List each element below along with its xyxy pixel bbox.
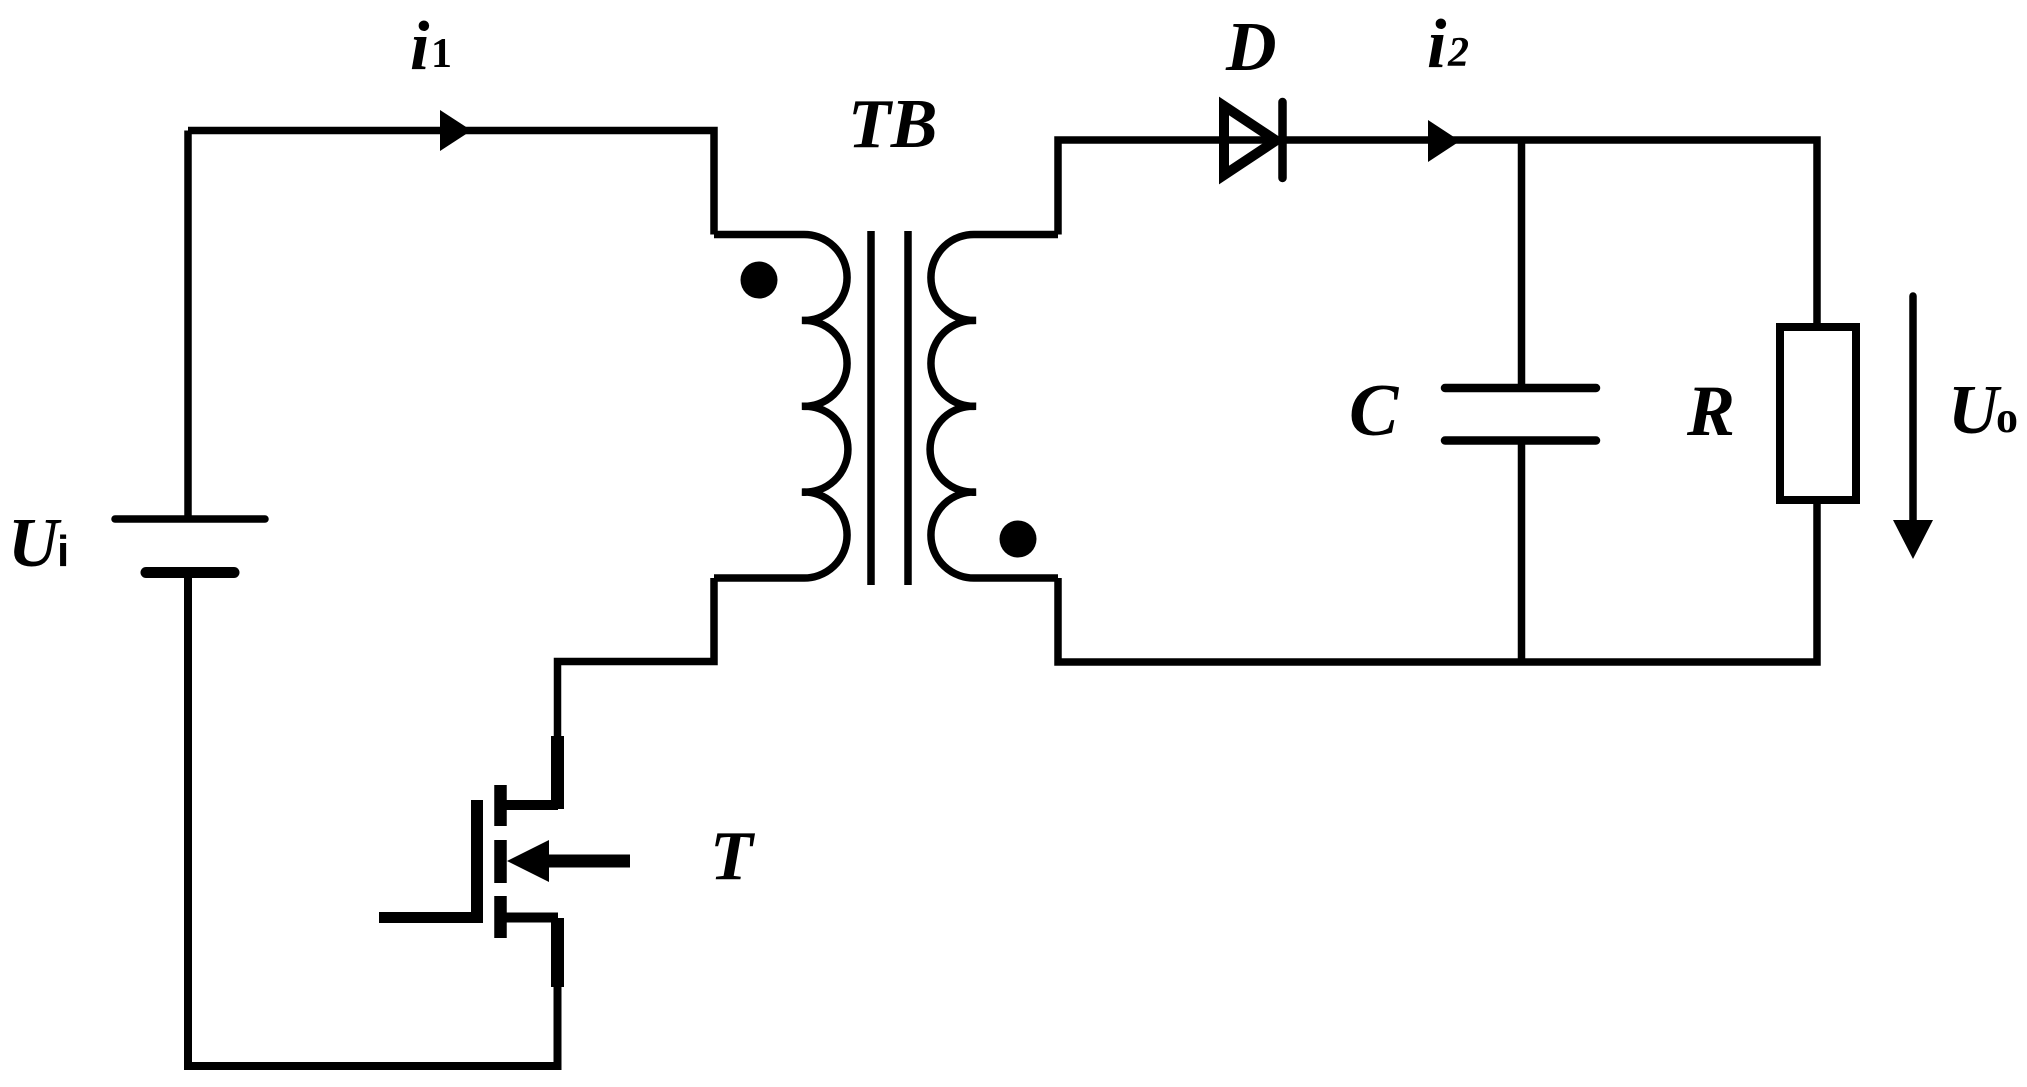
transistor T channel segment body bbox=[494, 840, 507, 883]
label D bbox=[1225, 9, 1277, 86]
svg-text:TB: TB bbox=[848, 86, 937, 163]
transistor T channel segment source bbox=[494, 896, 507, 938]
wire: secondary top, through diode, to resistor top bbox=[1058, 140, 1817, 327]
label R bbox=[1686, 371, 1735, 451]
svg-text:i: i bbox=[57, 527, 69, 576]
transformer core bbox=[871, 231, 908, 585]
wire: battery negative down, along bottom, up to MOSFET source bbox=[188, 573, 558, 1067]
wire: node to capacitor top plate bbox=[1518, 140, 1526, 388]
transistor T MOSFET gate bar bbox=[471, 800, 483, 923]
svg-text:1: 1 bbox=[431, 31, 452, 77]
diode D cathode bar bbox=[1278, 102, 1287, 178]
transistor T drain lead bbox=[500, 800, 558, 810]
capacitor C bottom plate bbox=[1445, 436, 1596, 445]
diode D triangle bbox=[1224, 106, 1276, 175]
wire: capacitor bottom plate to bottom rail bbox=[1518, 441, 1526, 663]
wire: secondary bottom, along bottom rail, up to resistor bottom bbox=[1058, 500, 1817, 662]
transistor T source stub bbox=[551, 918, 564, 987]
transistor T gate lead bbox=[379, 912, 477, 923]
svg-text:D: D bbox=[1225, 9, 1277, 86]
capacitor C top plate bbox=[1445, 384, 1596, 393]
current arrow i2 bbox=[1428, 120, 1460, 162]
svg-text:U: U bbox=[1948, 372, 2002, 449]
resistor R body bbox=[1780, 327, 1856, 500]
battery Ui short plate bbox=[146, 567, 234, 578]
current arrow i1 bbox=[440, 110, 472, 151]
svg-text:o: o bbox=[1996, 393, 2018, 442]
label TB bbox=[848, 86, 937, 163]
transformer TB primary winding bbox=[714, 234, 848, 578]
label i1 bbox=[410, 8, 452, 85]
output voltage arrow Uo bbox=[1909, 296, 1917, 520]
transformer TB secondary winding bbox=[930, 234, 1058, 578]
primary polarity dot bbox=[741, 262, 778, 299]
label i2 bbox=[1427, 6, 1469, 83]
svg-text:T: T bbox=[710, 818, 756, 895]
svg-text:2: 2 bbox=[1447, 30, 1469, 76]
transistor T drain stub bbox=[551, 736, 564, 809]
svg-text:R: R bbox=[1686, 371, 1735, 451]
svg-text:i: i bbox=[410, 8, 430, 85]
battery Ui long plate bbox=[115, 515, 265, 523]
label T bbox=[710, 818, 756, 895]
label Ui bbox=[8, 505, 69, 582]
label Uo bbox=[1948, 372, 2018, 449]
wire: battery positive to top-left corner and down to transformer primary top bbox=[188, 131, 714, 516]
svg-text:i: i bbox=[1427, 6, 1447, 83]
transistor T source lead bbox=[500, 913, 558, 923]
svg-text:U: U bbox=[8, 505, 62, 582]
label C bbox=[1349, 370, 1400, 452]
wire: transformer primary bottom to MOSFET drain bbox=[558, 578, 715, 736]
transistor T body arrow bbox=[507, 840, 549, 882]
svg-text:C: C bbox=[1349, 370, 1400, 452]
transistor T channel segment drain bbox=[494, 785, 507, 826]
secondary polarity dot bbox=[1000, 521, 1037, 558]
